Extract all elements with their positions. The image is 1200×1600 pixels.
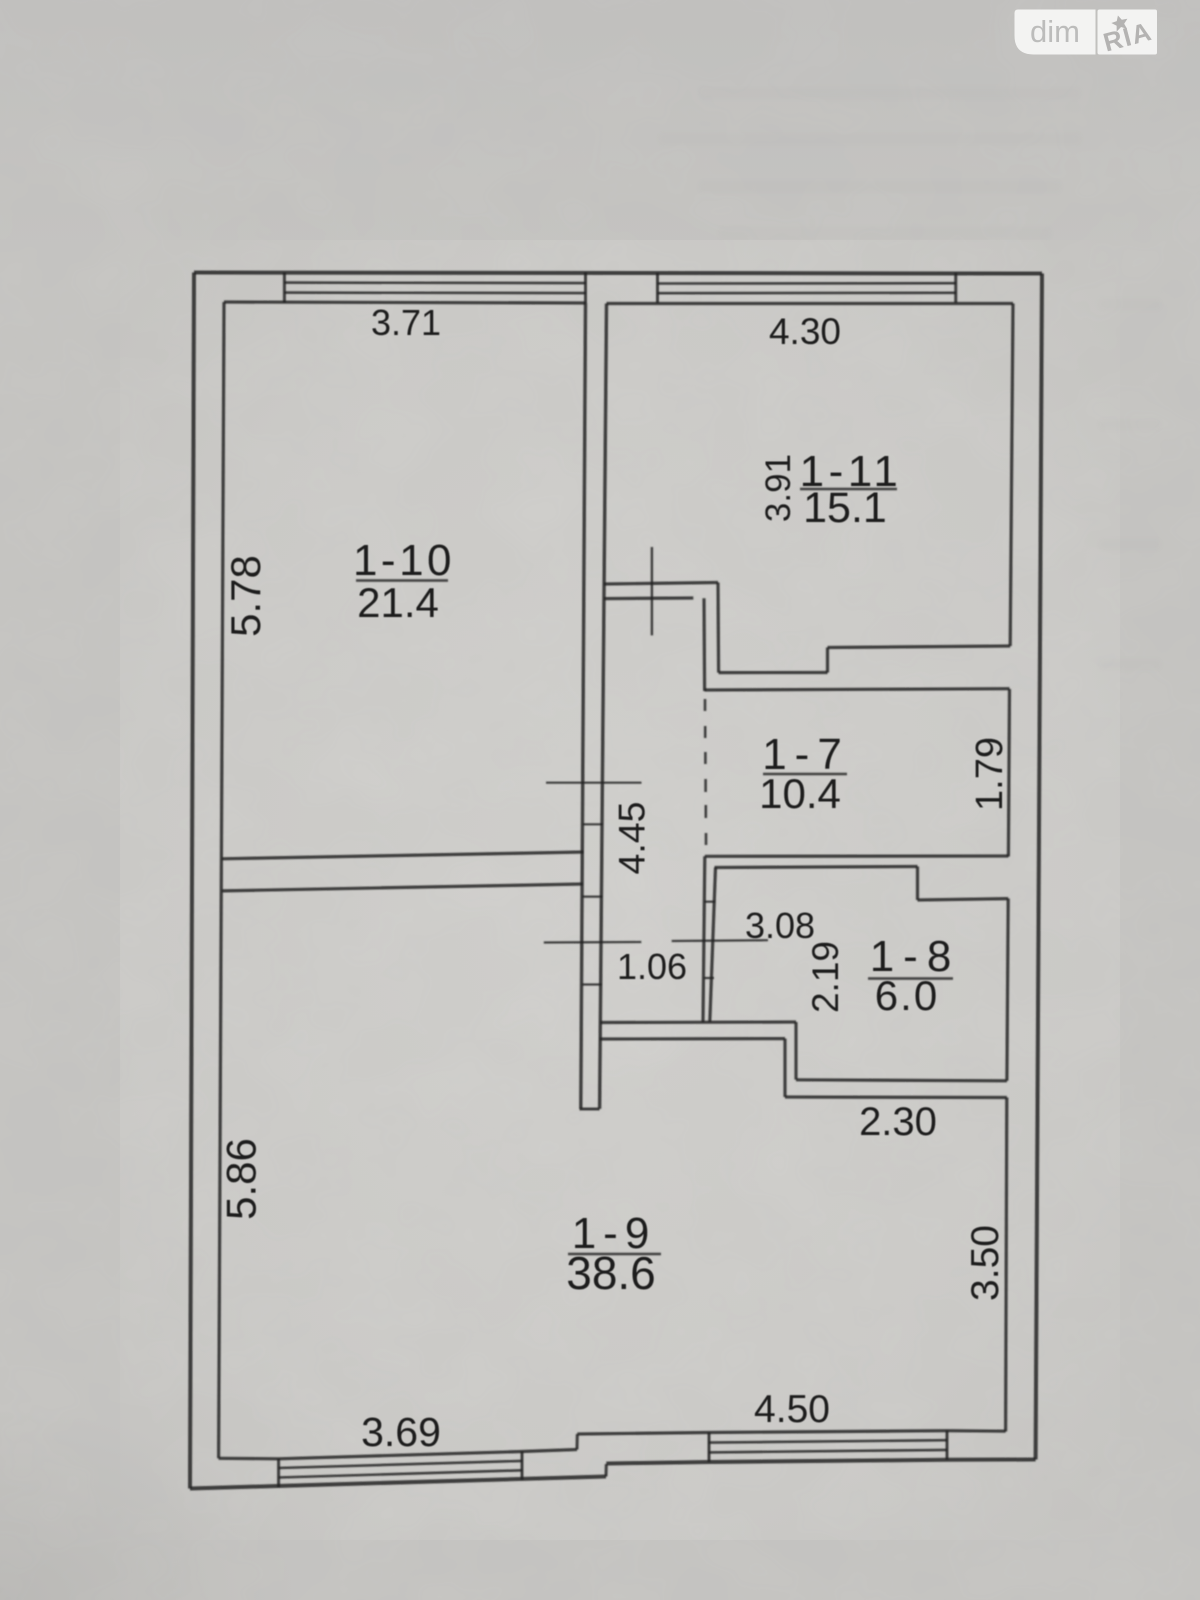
svg-text:3.71: 3.71 [371, 302, 441, 343]
label underlines [356, 579, 448, 582]
svg-text:4.50: 4.50 [754, 1388, 830, 1431]
svg-text:3.91: 3.91 [759, 454, 798, 522]
wall outer bottom slab [606, 1462, 709, 1464]
wall outer left [190, 273, 194, 1489]
dashed opening 1-7 [704, 699, 707, 711]
svg-text:6.0: 6.0 [875, 972, 939, 1019]
door break mark [651, 547, 653, 635]
svg-text:2.30: 2.30 [859, 1100, 937, 1144]
svg-text:2.19: 2.19 [805, 941, 846, 1013]
plan line work [190, 273, 1042, 1489]
wall outer bottom-right [947, 1458, 1036, 1462]
svg-text:21.4: 21.4 [357, 579, 439, 626]
wall inner right segments [1010, 304, 1013, 647]
central wall joint ticks [583, 823, 603, 825]
svg-text:3.08: 3.08 [745, 905, 815, 946]
svg-text:1.06: 1.06 [617, 946, 687, 987]
wall between 1-7 and 1-8 [705, 854, 1009, 857]
central wall right line [600, 304, 607, 1109]
svg-text:5.78: 5.78 [222, 555, 269, 637]
wall inner bottom segments [219, 1450, 577, 1459]
wall inner top (room 1-10) [224, 302, 586, 303]
central wall left line [581, 303, 586, 1109]
svg-text:5.86: 5.86 [218, 1138, 265, 1220]
svg-text:4.45: 4.45 [611, 802, 653, 875]
partition left of 1-8 [703, 856, 705, 1022]
window W4 bottom-right (room 1-9) [708, 1433, 711, 1463]
wall outer bottom-left [190, 1477, 606, 1489]
svg-text:10.4: 10.4 [759, 770, 841, 817]
svg-text:4.30: 4.30 [769, 311, 841, 352]
watermark dim RIA [1015, 8, 1158, 57]
wall inner left [219, 302, 224, 1458]
dimension tick lines [546, 782, 642, 784]
wall inner top (room 1-11) [607, 302, 1014, 305]
room 1-8 bottom wall [796, 1080, 1007, 1081]
faint bleedthrough ghosts [660, 88, 1160, 669]
central wall bottom cap [580, 1108, 600, 1111]
svg-text:3.50: 3.50 [964, 1225, 1007, 1301]
corridor bottom wall [600, 1020, 796, 1024]
stub wall top of corridor [604, 583, 718, 585]
svg-text:3.69: 3.69 [361, 1409, 441, 1455]
wall outer bottom step [605, 1464, 608, 1477]
svg-text:15.1: 15.1 [803, 484, 887, 532]
window W3 bottom-left (room 1-9) [277, 1459, 280, 1488]
room 1-11 bottom wall [719, 671, 828, 674]
svg-text:38.6: 38.6 [566, 1247, 656, 1299]
window W2 top (room 1-11) [656, 273, 659, 303]
svg-text:dim: dim [1030, 14, 1080, 49]
window W1 top (room 1-10) [283, 273, 286, 303]
wall outer top [194, 273, 1042, 274]
svg-text:1-10: 1-10 [353, 536, 455, 585]
svg-text:1.79: 1.79 [969, 737, 1011, 811]
wall outer right [1036, 274, 1042, 1460]
interior wall between 1-10 and 1-9 [222, 852, 584, 859]
room 1-7 top wall [705, 689, 1010, 690]
